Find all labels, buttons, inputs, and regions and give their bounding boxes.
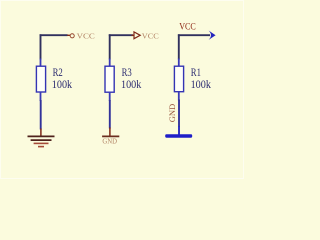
power port VCC circle [70,34,74,38]
power port VCC text (left) [77,32,96,40]
resistor R1 value label 100k [191,79,212,91]
resistor R2 value label 100k [52,79,73,91]
wire: right branch vertical bottom [178,100,180,128]
earth ground bar 2 [31,139,52,141]
power port VCC stub (circle style) [67,34,70,36]
resistor R2 body [36,66,45,92]
pin 1 of R2 (top) [40,59,42,67]
svg-text:GND: GND [102,138,117,146]
wire: left branch vertical top [40,34,42,59]
pin 2 of R2 (bottom) [40,92,42,101]
earth ground bar 3 [34,142,49,144]
pin 2 of R1 (bottom) [178,92,180,101]
earth ground bar 1 [28,135,55,137]
earth ground stem [40,129,42,137]
power port GND bar (middle) [102,135,119,137]
pin 1 of R1 (top) [178,59,180,67]
pin 1 of R3 (top) [109,59,111,67]
svg-text:100k: 100k [121,79,142,91]
resistor R3 designator label [122,67,132,79]
resistor R3 body [105,66,114,92]
resistor R1 body [174,66,183,92]
svg-text:VCC: VCC [77,32,96,40]
power port VCC open-arrow symbol [134,32,140,39]
resistor R3 value label 100k [121,79,142,91]
svg-text:GND: GND [168,104,177,123]
bar ground (right, blue bar) [165,134,192,137]
bar ground stem (right) [178,126,180,135]
net label VCC (right) [179,21,196,31]
resistor R2 designator label [53,67,63,79]
wire: left branch vertical bottom [40,100,42,130]
svg-text:R1: R1 [191,67,201,79]
wire: middle branch horizontal top [109,34,133,36]
wire: middle branch vertical bottom [109,100,111,129]
svg-text:R2: R2 [53,67,63,79]
wire: right branch vertical top [178,34,180,59]
pin 2 of R3 (bottom) [109,92,111,101]
resistor R1 designator label [191,67,201,79]
power port VCC text (middle) [142,32,159,40]
power port GND stem (middle) [109,128,111,137]
svg-text:R3: R3 [122,67,132,79]
wire: middle branch vertical top [109,34,111,59]
wire: right branch horizontal top [178,34,210,36]
svg-text:100k: 100k [191,79,212,91]
sheet background [0,0,244,179]
svg-text:100k: 100k [52,79,73,91]
earth ground bar 4 [38,146,44,148]
svg-text:VCC: VCC [142,32,159,40]
power port GND text (middle) [102,138,117,146]
wire: left branch horizontal top [40,34,68,36]
net label GND (rotated, right) [168,104,177,123]
power port VCC arrow stub (middle) [132,34,135,36]
svg-text:VCC: VCC [179,21,196,31]
wire arrowhead (right, off-sheet arrow) [209,31,216,40]
